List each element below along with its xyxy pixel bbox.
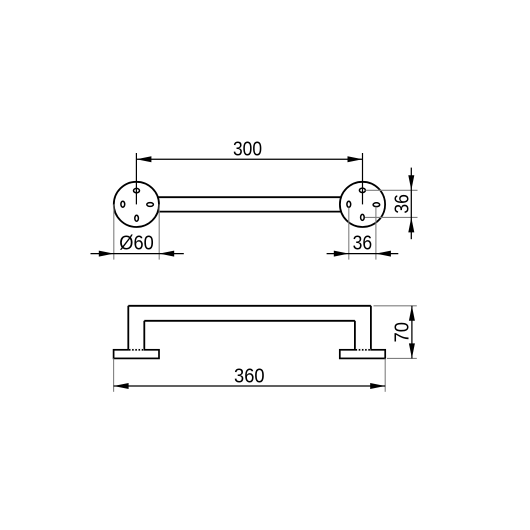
- flange right (wall plate, top view): [340, 182, 385, 227]
- flange left (wall plate, top view): [114, 182, 159, 227]
- base plate left (front view): [114, 350, 159, 359]
- extension lines for horizontal 36 (hole spacing): [349, 207, 376, 260]
- dimension 360 (overall width): [114, 366, 386, 389]
- centerline right flange: [362, 153, 364, 204]
- svg-text:36: 36: [353, 233, 373, 255]
- screw holes right flange: [347, 188, 380, 220]
- dimension 70 (overall height): [392, 306, 415, 359]
- svg-text:70: 70: [392, 322, 414, 343]
- dimension 300 (center to center): [136, 139, 362, 163]
- svg-text:360: 360: [234, 366, 265, 388]
- dimension dia.60 (flange diameter): [91, 233, 184, 257]
- screw holes left flange: [121, 188, 154, 221]
- bar outline (front view): [128, 306, 371, 350]
- extension lines for vertical 36 (hole spacing): [365, 190, 418, 217]
- dimension 36 vertical (hole pitch): [391, 168, 414, 240]
- svg-text:300: 300: [233, 139, 262, 161]
- bar (top view, horizontal tube): [152, 197, 347, 211]
- centerline left flange: [135, 153, 137, 204]
- extension lines for 70 (overall height): [374, 306, 417, 359]
- base plate right (front view): [340, 350, 385, 359]
- extension lines for dia.60: [114, 204, 159, 259]
- dimension 36 horizontal (hole pitch): [327, 233, 399, 257]
- svg-text:Ø60: Ø60: [119, 233, 153, 255]
- svg-text:36: 36: [391, 194, 413, 214]
- extension lines for 360 (overall width): [114, 358, 386, 391]
